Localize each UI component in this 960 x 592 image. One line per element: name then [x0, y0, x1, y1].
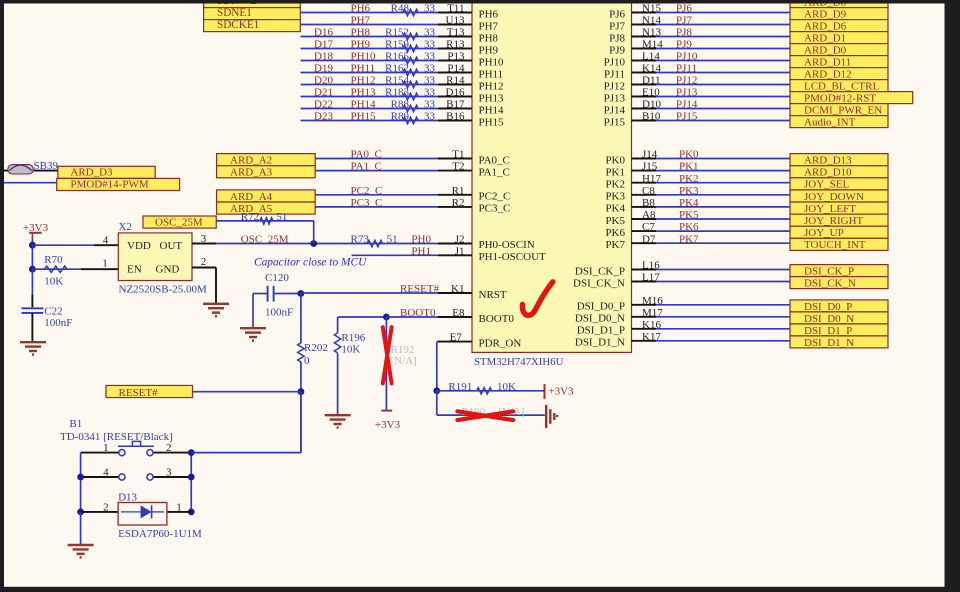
svg-text:E7: E7	[450, 332, 463, 344]
svg-text:C22: C22	[44, 306, 62, 318]
svg-text:TOUCH_INT: TOUCH_INT	[804, 239, 866, 251]
svg-text:PA0_C: PA0_C	[351, 149, 382, 161]
svg-text:Audio_INT: Audio_INT	[804, 117, 856, 129]
svg-text:33: 33	[424, 51, 436, 63]
svg-text:PH11: PH11	[479, 68, 504, 80]
svg-text:D16: D16	[314, 27, 333, 39]
svg-text:PK5: PK5	[679, 209, 699, 221]
svg-text:T11: T11	[447, 3, 464, 15]
svg-text:ARD_D6: ARD_D6	[804, 21, 847, 33]
svg-text:H17: H17	[642, 173, 661, 185]
svg-text:33: 33	[424, 99, 436, 111]
svg-text:OSC_25M: OSC_25M	[155, 216, 203, 228]
svg-text:NZ2520SB-25.00M: NZ2520SB-25.00M	[119, 283, 208, 295]
svg-text:D20: D20	[314, 75, 333, 87]
svg-text:ARD_D0: ARD_D0	[804, 45, 847, 57]
svg-text:J14: J14	[642, 149, 658, 161]
svg-text:N13: N13	[642, 27, 661, 39]
svg-text:1: 1	[102, 258, 108, 270]
svg-text:B8: B8	[642, 197, 655, 209]
svg-text:D19: D19	[314, 63, 333, 75]
svg-text:PJ6: PJ6	[609, 8, 625, 20]
svg-text:P13: P13	[447, 51, 465, 63]
svg-text:PH8: PH8	[479, 32, 499, 44]
svg-text:PH6: PH6	[351, 3, 371, 15]
svg-text:33: 33	[424, 63, 436, 75]
svg-text:+3V3: +3V3	[548, 386, 574, 398]
svg-text:L16: L16	[642, 260, 660, 272]
svg-text:33: 33	[424, 87, 436, 99]
svg-text:PK0: PK0	[605, 154, 625, 166]
svg-text:PK4: PK4	[605, 203, 625, 215]
svg-text:PK0: PK0	[679, 149, 699, 161]
svg-text:D23: D23	[314, 111, 333, 123]
svg-text:L14: L14	[642, 51, 660, 63]
svg-text:PJ10: PJ10	[604, 56, 626, 68]
svg-text:PA1_C: PA1_C	[351, 161, 382, 173]
svg-text:LCD_BL_CTRL: LCD_BL_CTRL	[804, 81, 879, 93]
svg-text:PMOD#14-PWM: PMOD#14-PWM	[70, 179, 148, 191]
svg-text:PH15: PH15	[479, 116, 505, 128]
svg-text:PJ13: PJ13	[604, 92, 626, 104]
svg-text:DSI_D0_P: DSI_D0_P	[804, 301, 852, 313]
svg-text:K14: K14	[642, 63, 661, 75]
svg-text:PH10: PH10	[351, 51, 377, 63]
svg-text:VDD: VDD	[127, 240, 151, 252]
svg-text:PH8: PH8	[351, 27, 371, 39]
svg-text:PH14: PH14	[479, 104, 505, 116]
svg-text:PH13: PH13	[479, 92, 505, 104]
svg-text:PK5: PK5	[605, 215, 625, 227]
svg-text:C8: C8	[642, 185, 655, 197]
svg-text:PC2_C: PC2_C	[351, 185, 383, 197]
svg-text:PJ8: PJ8	[609, 32, 625, 44]
svg-text:PDR_ON: PDR_ON	[479, 337, 522, 349]
svg-text:PH9: PH9	[479, 44, 499, 56]
svg-text:J2: J2	[455, 234, 465, 246]
svg-text:E8: E8	[452, 307, 465, 319]
svg-text:ARD_D11: ARD_D11	[804, 57, 851, 69]
svg-text:D7: D7	[642, 233, 656, 245]
svg-text:PK1: PK1	[679, 161, 699, 173]
svg-text:R14: R14	[446, 75, 465, 87]
svg-text:PK2: PK2	[605, 179, 625, 191]
svg-text:R70: R70	[44, 254, 63, 266]
svg-text:PC3_C: PC3_C	[351, 197, 383, 209]
svg-text:PH11: PH11	[351, 63, 376, 75]
svg-text:10K: 10K	[341, 344, 360, 356]
svg-text:DSI_CK_P: DSI_CK_P	[575, 265, 625, 277]
svg-text:U13: U13	[446, 15, 465, 27]
svg-text:PJ11: PJ11	[604, 68, 625, 80]
svg-text:D17: D17	[314, 39, 333, 51]
svg-text:ARD_A3: ARD_A3	[230, 167, 273, 179]
svg-text:PMOD#12-RST: PMOD#12-RST	[804, 93, 876, 105]
svg-text:M17: M17	[642, 307, 663, 319]
svg-text:ESDA7P60-1U1M: ESDA7P60-1U1M	[118, 528, 202, 540]
svg-text:SDCKE1: SDCKE1	[217, 19, 259, 31]
svg-text:R191: R191	[448, 381, 472, 393]
svg-text:PA0_C: PA0_C	[479, 154, 510, 166]
svg-text:STM32H747XIH6U: STM32H747XIH6U	[474, 356, 564, 368]
svg-text:PK4: PK4	[679, 197, 699, 209]
svg-text:R73: R73	[351, 234, 370, 246]
svg-text:PH7: PH7	[479, 20, 499, 32]
svg-text:RESET#: RESET#	[400, 283, 440, 295]
svg-text:OSC_25M: OSC_25M	[241, 234, 289, 246]
svg-text:PH0-OSCIN: PH0-OSCIN	[479, 239, 535, 251]
svg-text:PK3: PK3	[605, 191, 625, 203]
svg-text:PH1-OSCOUT: PH1-OSCOUT	[479, 251, 547, 263]
svg-text:PH15: PH15	[351, 111, 377, 123]
svg-text:ARD_D12: ARD_D12	[804, 69, 852, 81]
svg-text:DSI_D1_N: DSI_D1_N	[804, 337, 854, 349]
svg-text:PK3: PK3	[679, 185, 699, 197]
svg-text:D10: D10	[642, 99, 661, 111]
svg-text:ARD_D13: ARD_D13	[804, 155, 852, 167]
svg-text:DSI_D1_P: DSI_D1_P	[577, 325, 625, 337]
svg-text:BOOT0: BOOT0	[479, 313, 515, 325]
svg-text:K17: K17	[642, 331, 661, 343]
svg-text:PJ8: PJ8	[676, 27, 692, 39]
svg-text:DSI_D0_N: DSI_D0_N	[804, 313, 854, 325]
svg-text:D18: D18	[314, 51, 333, 63]
svg-text:DSI_D0_P: DSI_D0_P	[577, 301, 625, 313]
svg-text:PK7: PK7	[679, 233, 699, 245]
svg-text:100nF: 100nF	[44, 317, 72, 329]
svg-text:R72: R72	[241, 211, 259, 223]
svg-text:T1: T1	[452, 149, 464, 161]
svg-text:PJ9: PJ9	[609, 44, 625, 56]
svg-text:PJ11: PJ11	[676, 63, 697, 75]
svg-text:R2: R2	[452, 197, 465, 209]
svg-text:ARD_D1: ARD_D1	[804, 33, 846, 45]
svg-text:PJ12: PJ12	[604, 80, 625, 92]
svg-text:K1: K1	[451, 283, 464, 295]
svg-text:K16: K16	[642, 319, 661, 331]
svg-text:33: 33	[424, 111, 436, 123]
svg-text:1: 1	[103, 442, 109, 454]
svg-text:PH0: PH0	[411, 234, 431, 246]
svg-text:JOY_LEFT: JOY_LEFT	[804, 203, 856, 215]
svg-text:[N/A]: [N/A]	[391, 355, 417, 367]
svg-text:10K: 10K	[497, 381, 516, 393]
svg-text:JOY_DOWN: JOY_DOWN	[804, 191, 864, 203]
svg-text:PJ15: PJ15	[604, 116, 626, 128]
svg-text:DSI_D1_P: DSI_D1_P	[804, 325, 852, 337]
svg-text:R192: R192	[391, 344, 415, 356]
svg-text:DSI_CK_N: DSI_CK_N	[573, 277, 625, 289]
svg-text:PH12: PH12	[479, 80, 504, 92]
svg-text:33: 33	[424, 39, 436, 51]
svg-text:GND: GND	[156, 264, 180, 276]
svg-text:DSI_CK_P: DSI_CK_P	[804, 266, 854, 278]
svg-text:EN: EN	[127, 264, 142, 276]
svg-text:PH6: PH6	[479, 8, 499, 20]
svg-text:R1: R1	[452, 185, 465, 197]
svg-text:100nF: 100nF	[265, 307, 293, 319]
svg-text:DCMI_PWR_EN: DCMI_PWR_EN	[804, 105, 882, 117]
svg-text:SB39: SB39	[34, 160, 59, 172]
svg-text:B16: B16	[446, 111, 465, 123]
svg-text:ARD_A4: ARD_A4	[230, 191, 273, 203]
svg-text:L17: L17	[642, 272, 660, 284]
svg-text:2: 2	[166, 442, 172, 454]
svg-text:SDNE1: SDNE1	[217, 7, 252, 19]
svg-text:D13: D13	[118, 492, 137, 504]
svg-text:2: 2	[201, 256, 207, 268]
svg-text:DSI_CK_N: DSI_CK_N	[804, 278, 856, 290]
svg-text:PJ14: PJ14	[604, 104, 626, 116]
svg-text:J1: J1	[455, 245, 465, 257]
svg-text:51: 51	[276, 211, 287, 223]
svg-text:OUT: OUT	[160, 240, 183, 252]
svg-text:D16: D16	[446, 87, 465, 99]
svg-text:PJ6: PJ6	[676, 3, 692, 15]
svg-text:B10: B10	[642, 111, 661, 123]
svg-text:PJ12: PJ12	[676, 75, 697, 87]
svg-text:ARD_D3: ARD_D3	[70, 166, 113, 178]
svg-text:D11: D11	[642, 75, 661, 87]
svg-text:PK6: PK6	[605, 227, 625, 239]
svg-text:PC3_C: PC3_C	[479, 203, 511, 215]
svg-text:3: 3	[166, 466, 172, 478]
svg-text:PJ10: PJ10	[676, 51, 698, 63]
svg-text:PJ9: PJ9	[676, 39, 692, 51]
svg-text:N15: N15	[642, 3, 661, 15]
svg-text:ARD_A2: ARD_A2	[230, 155, 272, 167]
svg-text:JOY_UP: JOY_UP	[804, 227, 844, 239]
svg-text:TD-0341 [RESET/Black]: TD-0341 [RESET/Black]	[60, 431, 173, 443]
svg-text:PH12: PH12	[351, 75, 376, 87]
svg-text:Capacitor close to MCU: Capacitor close to MCU	[254, 257, 367, 269]
svg-text:0: 0	[304, 355, 310, 367]
svg-text:ARD_D9: ARD_D9	[804, 9, 847, 21]
svg-text:M16: M16	[642, 295, 663, 307]
svg-text:PH1: PH1	[411, 245, 431, 257]
svg-text:R13: R13	[446, 39, 465, 51]
svg-text:NRST: NRST	[479, 289, 507, 301]
svg-text:BOOT0: BOOT0	[400, 307, 436, 319]
svg-text:10K: 10K	[44, 275, 63, 287]
svg-text:PK6: PK6	[679, 221, 699, 233]
svg-text:PK2: PK2	[679, 173, 699, 185]
svg-text:+3V3: +3V3	[375, 419, 401, 431]
svg-text:4: 4	[103, 235, 109, 247]
svg-text:PK1: PK1	[605, 166, 625, 178]
svg-text:DSI_D0_N: DSI_D0_N	[575, 313, 625, 325]
svg-text:PA1_C: PA1_C	[479, 166, 510, 178]
svg-text:PJ15: PJ15	[676, 111, 698, 123]
svg-text:51: 51	[387, 234, 398, 246]
svg-text:B1: B1	[69, 418, 82, 430]
svg-text:1: 1	[176, 501, 182, 513]
svg-text:R202: R202	[304, 342, 328, 354]
svg-text:JOY_SEL: JOY_SEL	[804, 179, 850, 191]
svg-text:ARD_D10: ARD_D10	[804, 167, 852, 179]
svg-text:A8: A8	[642, 209, 656, 221]
svg-text:PC2_C: PC2_C	[479, 191, 511, 203]
svg-text:PJ13: PJ13	[676, 87, 698, 99]
svg-text:E10: E10	[642, 87, 660, 99]
svg-text:J15: J15	[642, 161, 658, 173]
svg-text:4: 4	[103, 466, 109, 478]
svg-text:RESET#: RESET#	[119, 387, 159, 399]
svg-text:X2: X2	[119, 221, 132, 233]
svg-text:PJ14: PJ14	[676, 99, 698, 111]
svg-text:PH9: PH9	[351, 39, 371, 51]
svg-text:C120: C120	[265, 272, 289, 284]
svg-text:N14: N14	[642, 15, 661, 27]
svg-text:D21: D21	[314, 87, 333, 99]
svg-text:D22: D22	[314, 99, 333, 111]
svg-text:33: 33	[424, 3, 436, 15]
svg-text:33: 33	[424, 27, 436, 39]
svg-text:PK7: PK7	[605, 239, 625, 251]
svg-text:R196: R196	[341, 332, 365, 344]
svg-text:2: 2	[103, 501, 109, 513]
svg-text:B17: B17	[446, 99, 465, 111]
svg-text:JOY_RIGHT: JOY_RIGHT	[804, 215, 864, 227]
svg-text:T2: T2	[452, 161, 464, 173]
svg-text:PH7: PH7	[351, 15, 371, 27]
svg-text:3: 3	[201, 233, 207, 245]
svg-text:33: 33	[424, 75, 436, 87]
svg-text:PJ7: PJ7	[676, 15, 692, 27]
svg-text:PH13: PH13	[351, 87, 377, 99]
svg-text:C7: C7	[642, 221, 655, 233]
svg-text:PH10: PH10	[479, 56, 505, 68]
svg-text:M14: M14	[642, 39, 663, 51]
svg-text:PH14: PH14	[351, 99, 377, 111]
svg-text:T13: T13	[447, 27, 465, 39]
svg-text:PJ7: PJ7	[609, 20, 625, 32]
svg-text:DSI_D1_N: DSI_D1_N	[575, 337, 625, 349]
svg-text:P14: P14	[447, 63, 465, 75]
